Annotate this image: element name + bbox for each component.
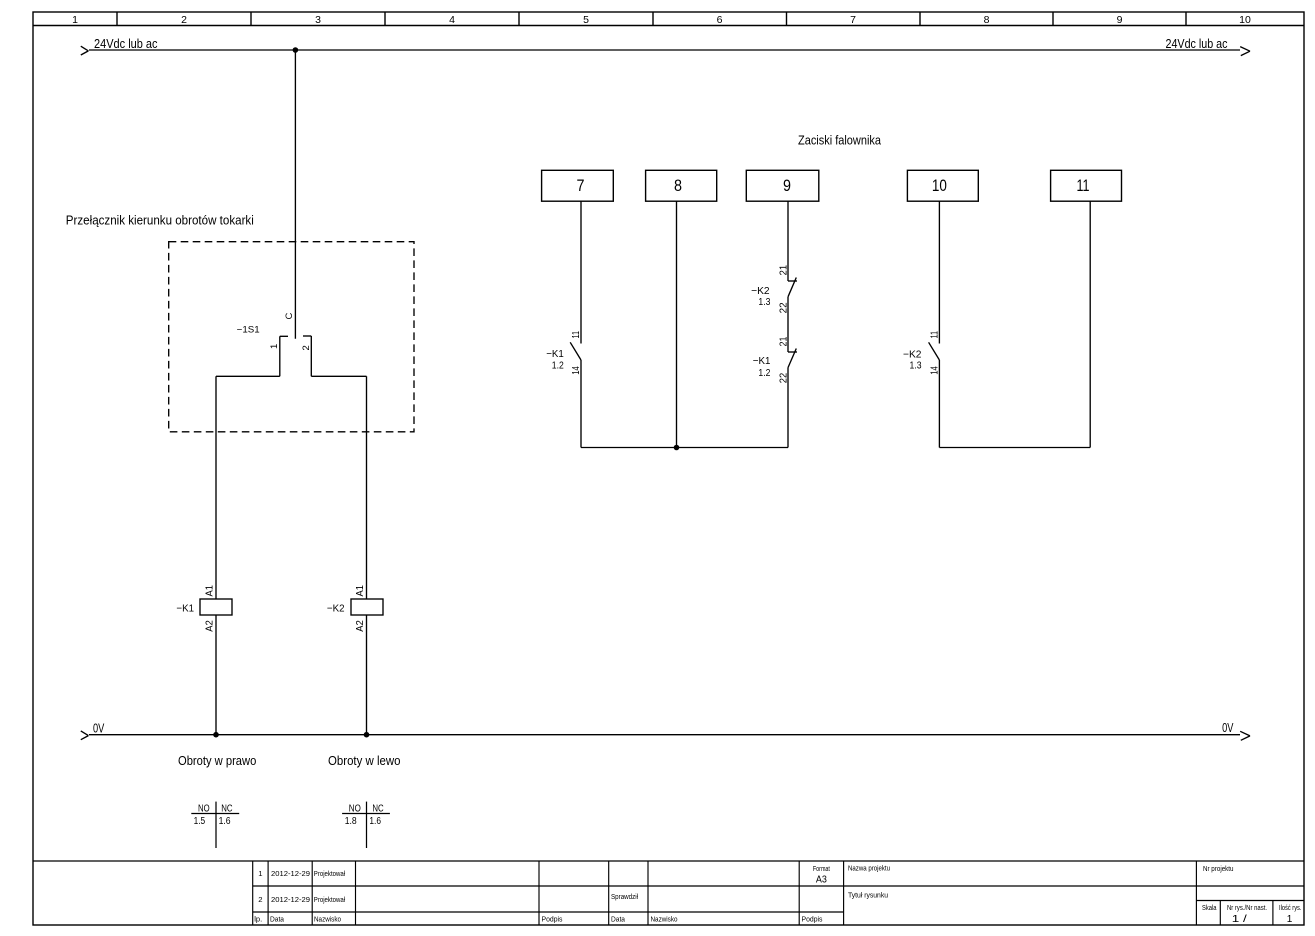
svg-text:21: 21: [777, 336, 789, 346]
svg-text:1 /: 1 /: [1232, 914, 1247, 925]
svg-text:Data: Data: [611, 915, 626, 924]
svg-text:NC: NC: [221, 803, 232, 814]
svg-text:0V: 0V: [93, 722, 105, 736]
svg-text:1: 1: [1287, 914, 1293, 925]
svg-text:Data: Data: [270, 915, 285, 924]
svg-text:A1: A1: [354, 585, 366, 597]
svg-text:−1S1: −1S1: [237, 325, 260, 336]
svg-text:6: 6: [717, 14, 723, 26]
svg-text:Podpis: Podpis: [542, 915, 563, 924]
svg-text:NO: NO: [349, 803, 361, 814]
svg-text:Obroty w lewo: Obroty w lewo: [328, 754, 401, 768]
svg-text:7: 7: [577, 176, 585, 195]
svg-text:2: 2: [301, 345, 312, 350]
svg-text:11: 11: [928, 331, 940, 339]
svg-text:−K1: −K1: [546, 348, 564, 360]
svg-text:1.6: 1.6: [219, 816, 231, 827]
svg-text:9: 9: [1117, 14, 1123, 26]
svg-text:Podpis: Podpis: [802, 915, 823, 924]
svg-text:24Vdc lub ac: 24Vdc lub ac: [1166, 37, 1228, 51]
svg-text:14: 14: [928, 366, 940, 375]
svg-text:Nr projektu: Nr projektu: [1203, 864, 1234, 873]
svg-text:1.2: 1.2: [552, 359, 564, 371]
svg-text:11: 11: [1077, 176, 1090, 195]
svg-text:−K2: −K2: [327, 603, 345, 615]
svg-text:NO: NO: [198, 803, 210, 814]
svg-text:4: 4: [449, 14, 455, 26]
svg-text:1: 1: [269, 344, 280, 349]
svg-text:14: 14: [570, 366, 582, 375]
svg-text:Projektował: Projektował: [314, 869, 346, 878]
svg-text:A1: A1: [204, 585, 216, 597]
svg-text:22: 22: [777, 302, 789, 313]
svg-text:A2: A2: [354, 620, 366, 632]
svg-text:Zaciski falownika: Zaciski falownika: [798, 134, 881, 148]
svg-text:1.3: 1.3: [758, 296, 770, 308]
svg-text:1: 1: [72, 14, 78, 26]
svg-text:1.5: 1.5: [194, 816, 206, 827]
svg-text:7: 7: [850, 14, 856, 26]
svg-text:Obroty w prawo: Obroty w prawo: [178, 754, 256, 768]
svg-text:Nr rys./Nr nast.: Nr rys./Nr nast.: [1227, 903, 1267, 912]
svg-text:21: 21: [777, 265, 789, 276]
svg-text:1.3: 1.3: [910, 359, 922, 371]
svg-text:24Vdc lub ac: 24Vdc lub ac: [94, 37, 158, 51]
svg-text:10: 10: [932, 176, 947, 195]
svg-text:A2: A2: [204, 620, 216, 632]
svg-text:lp.: lp.: [254, 915, 262, 924]
svg-text:−K2: −K2: [751, 285, 770, 297]
svg-text:8: 8: [984, 14, 990, 26]
svg-text:Przełącznik kierunku obrotów t: Przełącznik kierunku obrotów tokarki: [66, 213, 254, 227]
svg-text:Skala: Skala: [1202, 903, 1217, 912]
svg-text:−K1: −K1: [176, 603, 194, 615]
svg-text:10: 10: [1239, 14, 1251, 26]
svg-text:Sprawdził: Sprawdził: [611, 892, 638, 901]
svg-text:22: 22: [777, 373, 789, 384]
svg-text:Tytuł rysunku: Tytuł rysunku: [848, 891, 888, 900]
svg-text:2012-12-29: 2012-12-29: [271, 869, 310, 878]
svg-text:2: 2: [181, 14, 187, 26]
svg-text:Ilość rys.: Ilość rys.: [1279, 903, 1302, 912]
svg-text:−K1: −K1: [753, 355, 771, 367]
svg-text:C: C: [284, 313, 295, 320]
svg-text:Nazwa projektu: Nazwa projektu: [848, 864, 890, 873]
svg-text:NC: NC: [372, 803, 383, 814]
svg-text:Nazwisko: Nazwisko: [651, 915, 678, 924]
svg-text:11: 11: [570, 331, 582, 339]
svg-text:1.6: 1.6: [369, 816, 381, 827]
svg-text:Format: Format: [813, 864, 831, 873]
svg-text:9: 9: [783, 176, 791, 195]
svg-text:3: 3: [315, 14, 321, 26]
svg-text:2: 2: [258, 895, 262, 904]
svg-text:0V: 0V: [1222, 721, 1234, 735]
svg-text:1.2: 1.2: [758, 367, 770, 379]
svg-text:1.8: 1.8: [345, 816, 357, 827]
svg-text:A3: A3: [816, 875, 827, 886]
svg-text:1: 1: [258, 869, 262, 878]
svg-text:Nazwisko: Nazwisko: [314, 915, 341, 924]
svg-text:8: 8: [674, 176, 682, 195]
svg-text:2012-12-29: 2012-12-29: [271, 895, 310, 904]
svg-text:Projektował: Projektował: [314, 895, 346, 904]
svg-text:5: 5: [583, 14, 589, 26]
